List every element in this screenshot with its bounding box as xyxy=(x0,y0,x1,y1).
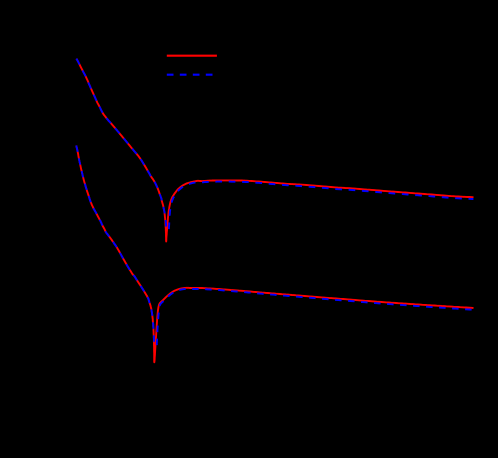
legend blue dashed sample xyxy=(167,74,217,76)
upper curve blue dashed xyxy=(76,59,473,230)
lower curve red solid xyxy=(76,146,473,363)
lower curve blue dashed xyxy=(76,146,473,346)
legend red solid sample xyxy=(167,55,217,57)
upper curve red solid xyxy=(76,59,473,242)
